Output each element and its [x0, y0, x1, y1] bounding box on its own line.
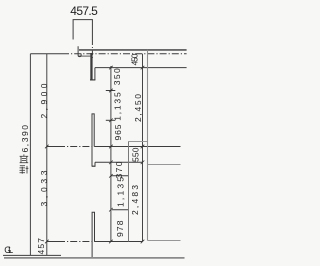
2F spandrel wall (outlined) — [92, 114, 94, 167]
2F window head cap — [90, 79, 95, 81]
eave soffit bottom — [78, 55, 90, 57]
upper wall section — [90, 53, 92, 80]
chain A tick 370/1135 — [111, 175, 129, 177]
1F window head jamb — [94, 162, 96, 166]
dimension tick slashes — [45, 66, 144, 244]
svg-text:6,390: 6,390 — [20, 125, 30, 153]
eave top line — [79, 49, 187, 51]
svg-text:965: 965 — [113, 124, 123, 140]
left outer dimension chain line — [29, 54, 31, 256]
porch lower gray line — [148, 164, 181, 166]
1F window head cap — [92, 165, 95, 167]
interior line vertical — [128, 141, 130, 241]
dimension bracket for 457.5 — [73, 20, 92, 40]
1F spandrel wall (outlined) — [92, 212, 94, 257]
porch base gray line — [148, 240, 181, 242]
chain A tick 1135/965 — [106, 119, 116, 121]
gutter — [78, 46, 81, 56]
ground line — [4, 257, 185, 259]
svg-text:550: 550 — [131, 147, 141, 162]
chain A tick 350/1135 — [106, 90, 116, 92]
svg-text:978: 978 — [115, 220, 125, 237]
left inner dimension chain line — [46, 54, 48, 256]
svg-text:457.5: 457.5 — [70, 4, 98, 18]
2F window head extension line — [95, 67, 187, 69]
svg-text:457: 457 — [36, 238, 46, 255]
eaves-height level line (dash-dot) with solid left extension — [30, 53, 62, 55]
right chain B line — [142, 54, 144, 242]
svg-text:2,450: 2,450 — [133, 94, 143, 122]
building edge gray vertical — [147, 50, 149, 241]
right chain A line — [110, 66, 112, 242]
1F floor level line — [47, 241, 58, 243]
svg-text:370: 370 — [114, 161, 124, 178]
interior ceiling line — [128, 141, 148, 143]
2F window head jamb — [94, 68, 96, 80]
GL level line — [3, 254, 61, 256]
svg-text:1,135: 1,135 — [116, 177, 126, 207]
svg-text:2,483: 2,483 — [130, 185, 140, 215]
svg-text:GL: GL — [4, 245, 13, 255]
2F floor level line (dash-dot left, solid right) — [47, 146, 58, 148]
svg-text:350: 350 — [112, 68, 122, 85]
1F window head extension line — [95, 161, 143, 163]
wall axis centerline (vertical dash-dot) — [91, 40, 93, 58]
svg-text:1,135: 1,135 — [113, 92, 123, 121]
svg-text:450: 450 — [130, 53, 140, 65]
kanji label nokidaka (軒高) pseudo-glyphs — [20, 154, 29, 173]
chain A tick 1135/978 — [112, 209, 129, 211]
